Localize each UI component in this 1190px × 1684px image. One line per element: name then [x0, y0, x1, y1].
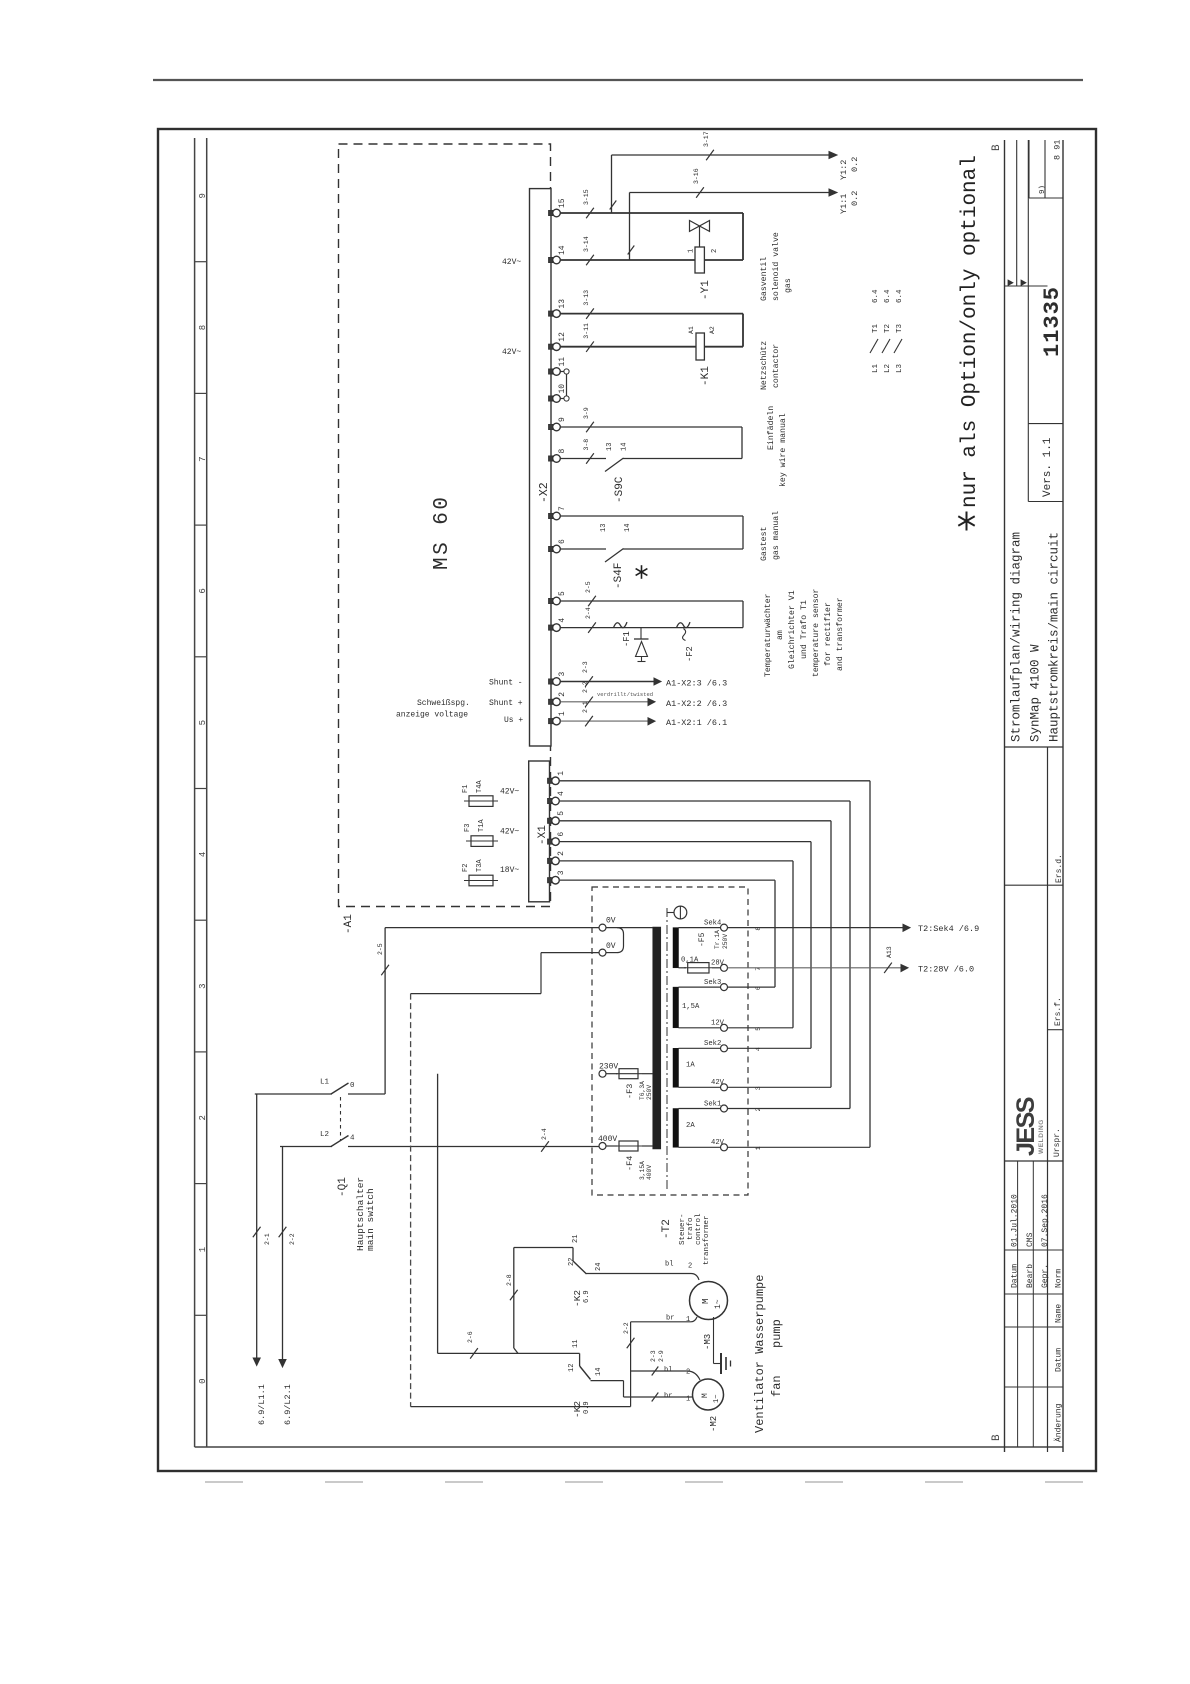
title block left line	[1004, 140, 1006, 1452]
svg-text:2-1: 2-1	[264, 1233, 271, 1245]
svg-text:0.9: 0.9	[583, 1401, 591, 1414]
svg-text:2-4: 2-4	[585, 607, 592, 619]
svg-text:2-3: 2-3	[650, 1350, 657, 1362]
svg-text:Gleichrichter V1: Gleichrichter V1	[787, 590, 797, 669]
wire X2:1 to reference arrow	[560, 720, 648, 722]
svg-text:1A: 1A	[686, 1062, 695, 1070]
contact K2 pump	[572, 1248, 574, 1262]
svg-text:-K2: -K2	[572, 1290, 583, 1307]
svg-text:Sek4: Sek4	[704, 919, 721, 927]
svg-text:-K2: -K2	[572, 1401, 583, 1418]
svg-text:0V: 0V	[606, 917, 616, 926]
svg-text:42V~: 42V~	[502, 258, 521, 267]
svg-text:-F1: -F1	[622, 631, 632, 647]
svg-text:6.9/L1.1: 6.9/L1.1	[257, 1384, 267, 1425]
svg-text:B: B	[991, 1434, 1003, 1441]
svg-text:L3: L3	[896, 363, 904, 373]
svg-text:01.Jul.2010: 01.Jul.2010	[1011, 1194, 1020, 1247]
wire M3 bottom lead	[631, 1321, 691, 1323]
svg-text:Name: Name	[1055, 1304, 1064, 1323]
svg-text:1: 1	[198, 1247, 208, 1252]
svg-text:2-2: 2-2	[623, 1322, 630, 1334]
svg-text:temperature sensor: temperature sensor	[812, 588, 821, 677]
svg-text:A1: A1	[688, 326, 695, 334]
svg-text:B: B	[991, 144, 1003, 151]
svg-text:Stromlaufplan/wiring diagram: Stromlaufplan/wiring diagram	[1010, 532, 1024, 742]
svg-text:CMS: CMS	[1026, 1232, 1035, 1247]
svg-text:230V: 230V	[599, 1063, 618, 1072]
revision row dividers	[1005, 1326, 1064, 1328]
svg-text:Datum: Datum	[1011, 1264, 1020, 1288]
wire slashes at motor leads	[652, 1367, 659, 1376]
svg-text:-F4: -F4	[625, 1156, 635, 1171]
svg-text:15: 15	[558, 198, 567, 208]
loop join 9/8	[741, 427, 743, 459]
wire X2:3 to reference arrow	[560, 681, 654, 683]
svg-text:14: 14	[621, 443, 629, 451]
svg-text:0V: 0V	[606, 942, 616, 951]
svg-text:-Y1: -Y1	[700, 280, 712, 300]
svg-text:F1: F1	[462, 785, 470, 793]
svg-text:2-6: 2-6	[467, 1331, 474, 1343]
svg-text:2-3: 2-3	[582, 661, 589, 673]
svg-text:0: 0	[198, 1378, 208, 1383]
svg-text:Sek1: Sek1	[704, 1100, 721, 1108]
svg-text:pump: pump	[770, 1319, 784, 1348]
svg-text:Shunt +: Shunt +	[489, 699, 523, 708]
wire X2:5 loop	[560, 600, 743, 602]
terminal X2:4	[549, 625, 556, 630]
svg-text:Datum: Datum	[1055, 1348, 1064, 1372]
svg-text:24: 24	[595, 1263, 603, 1271]
outer border frame	[158, 129, 1096, 1471]
board fuse F1 T4A	[464, 800, 498, 802]
svg-text:-M2: -M2	[709, 1416, 719, 1432]
svg-text:2: 2	[557, 851, 566, 856]
svg-text:gas manual: gas manual	[771, 511, 781, 560]
secondary tap Sek3	[721, 984, 728, 991]
svg-text:11: 11	[572, 1340, 580, 1348]
riser X1:2 to 12V	[792, 861, 794, 1028]
top horizontal rule	[153, 79, 1083, 81]
terminal X1:1	[548, 778, 555, 783]
svg-text:6: 6	[557, 832, 566, 837]
wire X1:5	[560, 820, 831, 822]
svg-text:6.4: 6.4	[896, 289, 904, 303]
wires secondary taps to risers	[728, 986, 776, 988]
svg-text:Vers. 1.1: Vers. 1.1	[1042, 437, 1054, 497]
primary tap 0V top	[599, 924, 606, 931]
svg-text:und Trafo T1: und Trafo T1	[799, 600, 809, 659]
svg-text:3: 3	[198, 983, 208, 988]
svg-text:5: 5	[198, 720, 208, 725]
0V return staircase	[541, 952, 599, 954]
svg-text:4: 4	[198, 852, 208, 857]
svg-text:1~: 1~	[714, 1299, 723, 1309]
wire X2:14	[560, 259, 743, 261]
thermal fuse F2	[677, 622, 691, 628]
svg-text:0: 0	[350, 1082, 355, 1090]
svg-text:3-17: 3-17	[703, 131, 710, 147]
svg-text:1,5A: 1,5A	[682, 1003, 700, 1011]
svg-text:12: 12	[558, 332, 567, 342]
title block col line 2	[1047, 747, 1049, 1452]
svg-text:T3: T3	[896, 323, 904, 333]
svg-text:transformer: transformer	[703, 1215, 711, 1265]
svg-text:6.9/L2.1: 6.9/L2.1	[283, 1384, 293, 1425]
norm row divider	[1005, 1293, 1064, 1295]
svg-text:3-11: 3-11	[583, 323, 590, 339]
title col line upper A	[1016, 140, 1018, 286]
vers cell lines	[1028, 423, 1063, 425]
svg-text:2-2: 2-2	[582, 681, 589, 693]
title block col line 3	[1062, 140, 1064, 1452]
svg-text:9: 9	[558, 417, 567, 422]
svg-text:14: 14	[624, 524, 632, 532]
svg-text:22: 22	[568, 1258, 576, 1266]
svg-text:42V: 42V	[711, 1079, 725, 1087]
svg-text:11335: 11335	[1040, 286, 1065, 357]
svg-text:13: 13	[606, 443, 614, 451]
svg-text:14: 14	[558, 245, 567, 255]
svg-text:Us +: Us +	[504, 716, 523, 725]
terminal X1:3	[548, 878, 555, 883]
terminal X2:13	[549, 311, 556, 316]
terminal X1:4	[548, 798, 555, 803]
svg-text:WELDING: WELDING	[1038, 1119, 1045, 1154]
svg-text:Sek2: Sek2	[704, 1040, 721, 1048]
svg-text:1: 1	[557, 771, 566, 776]
loop join 5/4	[742, 601, 744, 628]
wire number on L2 run	[541, 1141, 549, 1152]
svg-text:07.Sep.2016: 07.Sep.2016	[1041, 1194, 1050, 1247]
svg-text:6.4: 6.4	[872, 289, 880, 303]
wire X2:9 loop	[560, 426, 742, 428]
svg-text:4: 4	[558, 618, 567, 623]
svg-text:Schweißspg.: Schweißspg.	[417, 699, 470, 708]
wire M2 blue lead	[631, 1370, 688, 1372]
main switch Q1 pole L2	[331, 1136, 349, 1147]
svg-text:7: 7	[198, 456, 208, 461]
terminal X1:5	[548, 818, 555, 823]
svg-text:T2:28V /6.0: T2:28V /6.0	[918, 965, 974, 975]
mini box top-right	[1029, 197, 1063, 199]
terminal X1:2	[548, 858, 555, 863]
0V riser to motors	[630, 1322, 632, 1407]
svg-text:A2: A2	[709, 326, 716, 334]
svg-text:gas: gas	[784, 278, 793, 293]
svg-text:key wire manual: key wire manual	[778, 413, 788, 487]
svg-text:2: 2	[688, 1263, 692, 1271]
wire X2:2 to reference arrow	[560, 701, 648, 703]
asterisk option note	[966, 512, 968, 531]
core line	[666, 908, 668, 1191]
board fuse F3 T1A	[466, 840, 498, 842]
svg-text:-Q1: -Q1	[337, 1177, 349, 1197]
solenoid valve Y1 symbol	[690, 221, 700, 232]
svg-text:3-15: 3-15	[583, 189, 590, 205]
svg-text:T1: T1	[872, 323, 880, 333]
title col line upper B	[1027, 140, 1029, 424]
svg-text:0.2: 0.2	[850, 157, 860, 172]
pump feed riser	[513, 1248, 515, 1349]
K1 loop right join	[742, 314, 744, 347]
wire K2 to pump M3	[587, 1273, 692, 1275]
fan motor M2	[693, 1379, 724, 1410]
svg-text:T2:Sek4 /6.9: T2:Sek4 /6.9	[918, 924, 979, 934]
terminal X2:7	[549, 513, 556, 518]
svg-text:T1A: T1A	[478, 819, 486, 832]
svg-text:3: 3	[558, 672, 567, 677]
svg-text:0.2: 0.2	[850, 191, 860, 206]
shield earth circle	[674, 906, 687, 919]
svg-text:T6,3A: T6,3A	[639, 1081, 646, 1100]
wire L1 feed	[255, 1093, 332, 1095]
svg-text:4: 4	[350, 1135, 355, 1143]
wire L2.1 down to arrow	[282, 1147, 284, 1360]
frame column strip lines	[194, 138, 196, 1447]
svg-text:2-8: 2-8	[506, 1274, 513, 1286]
svg-text:13: 13	[600, 524, 608, 532]
svg-text:2-2: 2-2	[289, 1233, 296, 1245]
Y1 loop right join	[742, 213, 744, 260]
pump motor M3	[690, 1282, 728, 1320]
svg-text:A1-X2:3 /6.3: A1-X2:3 /6.3	[666, 679, 727, 689]
wire X2:12	[560, 346, 743, 348]
wire L1.1 down to arrow	[256, 1094, 258, 1358]
svg-text:1: 1	[688, 249, 696, 253]
svg-text:am: am	[776, 630, 785, 640]
riser X1:3 to Sek3	[774, 880, 776, 987]
svg-text:anzeige voltage: anzeige voltage	[396, 711, 468, 720]
svg-text:9): 9)	[1039, 185, 1047, 194]
svg-text:A13: A13	[886, 946, 893, 958]
svg-text:F2: F2	[462, 864, 470, 872]
svg-text:1~: 1~	[713, 1395, 721, 1403]
secondary tap 12V	[721, 1024, 728, 1031]
wire X1:1	[560, 780, 870, 782]
svg-text:Gastest: Gastest	[760, 527, 769, 561]
svg-text:2-9: 2-9	[658, 1350, 665, 1362]
optional asterisk at S4F	[641, 565, 643, 579]
secondary tap 42V	[721, 1144, 728, 1151]
svg-text:1: 1	[686, 1316, 690, 1324]
terminal X1:6	[548, 839, 555, 844]
wire L2 feed	[280, 1146, 332, 1148]
terminal strip X1	[529, 761, 550, 902]
frame column ticks	[195, 261, 207, 263]
svg-text:42V: 42V	[711, 1139, 725, 1147]
terminal X2:11 X2:10 jumper stubs	[560, 371, 564, 373]
svg-text:Steuer-: Steuer-	[679, 1213, 687, 1245]
svg-text:JESS: JESS	[1012, 1097, 1040, 1156]
svg-text:-F5: -F5	[698, 932, 707, 947]
fuse F5 on 28V tap	[679, 967, 687, 969]
terminal X2:6	[549, 546, 556, 551]
svg-text:42V~: 42V~	[502, 348, 521, 357]
230V feed down	[437, 1074, 439, 1354]
gas test switch S4F contact	[605, 549, 624, 563]
wire X1:6	[560, 841, 811, 843]
svg-text:fan: fan	[770, 1375, 784, 1397]
svg-text:-F3: -F3	[625, 1084, 635, 1099]
svg-text:Shunt -: Shunt -	[489, 679, 523, 688]
svg-text:2: 2	[711, 249, 719, 253]
svg-text:Temperaturwächter: Temperaturwächter	[763, 593, 773, 677]
svg-text:6: 6	[198, 588, 208, 593]
svg-text:br: br	[666, 1315, 674, 1323]
svg-text:13: 13	[558, 299, 567, 309]
svg-text:A1-X2:1 /6.1: A1-X2:1 /6.1	[666, 718, 727, 728]
svg-text:250V: 250V	[722, 934, 729, 949]
svg-text:3-9: 3-9	[583, 407, 590, 419]
contact K2 fan	[579, 1353, 581, 1366]
svg-text:2: 2	[198, 1115, 208, 1120]
svg-text:bl: bl	[664, 1367, 672, 1375]
svg-text:2-1: 2-1	[582, 701, 589, 713]
svg-text:T2: T2	[884, 324, 892, 333]
svg-text:5: 5	[557, 811, 566, 816]
datum value/label divider	[1005, 1249, 1064, 1251]
title block marks near divider	[1008, 280, 1013, 286]
svg-text:250V: 250V	[646, 1085, 653, 1100]
secondary tap Sek1	[721, 1105, 728, 1112]
svg-text:8: 8	[558, 449, 567, 454]
svg-text:2: 2	[686, 1369, 690, 1377]
svg-text:Gepr.: Gepr.	[1041, 1264, 1050, 1288]
svg-text:Y1:2: Y1:2	[839, 160, 849, 180]
svg-text:18V~: 18V~	[500, 866, 519, 875]
wire K2 to fan M2	[591, 1380, 624, 1382]
svg-text:br: br	[664, 1393, 672, 1401]
svg-text:6.4: 6.4	[884, 289, 892, 303]
svg-text:T4A: T4A	[476, 780, 484, 793]
svg-text:3-14: 3-14	[583, 236, 590, 252]
secondary tap 28V	[721, 964, 728, 971]
svg-text:nur als Option/only optional: nur als Option/only optional	[959, 155, 982, 508]
svg-text:main switch: main switch	[365, 1188, 376, 1251]
svg-text:3-13: 3-13	[583, 290, 590, 306]
wire X1:3	[560, 879, 775, 881]
svg-text:1: 1	[686, 1396, 690, 1404]
riser X1:1 to 42V	[869, 781, 871, 1148]
svg-text:verdrillt/twisted: verdrillt/twisted	[597, 691, 653, 698]
wire X2:15 to Y1 loop	[560, 212, 743, 214]
secondary winding bars	[673, 928, 679, 968]
svg-text:Änderung: Änderung	[1055, 1403, 1064, 1442]
svg-text:Ventilator Wasserpumpe: Ventilator Wasserpumpe	[753, 1275, 767, 1433]
svg-text:3,15A: 3,15A	[639, 1161, 646, 1180]
terminal X2:1	[549, 719, 556, 724]
svg-text:Ers.f.: Ers.f.	[1054, 997, 1063, 1026]
title block divider above 11335	[1005, 285, 1048, 287]
riser X1:4 to Sek1	[849, 801, 851, 1109]
svg-text:T3A: T3A	[476, 859, 484, 872]
svg-text:3: 3	[557, 870, 566, 875]
wire 28V to reference	[728, 967, 902, 969]
key switch S9C contact	[605, 458, 624, 472]
svg-text:10: 10	[558, 384, 567, 394]
svg-text:contactor: contactor	[772, 344, 781, 388]
svg-text:2-4: 2-4	[541, 1128, 548, 1140]
terminal X2:3	[549, 679, 556, 684]
secondary tap Sek4	[721, 924, 728, 931]
wire X2:13 to K1 loop	[560, 313, 743, 315]
frame inner bottom line	[195, 1446, 1063, 1448]
svg-text:2-5: 2-5	[377, 943, 384, 955]
svg-text:400V: 400V	[646, 1165, 653, 1180]
svg-text:11: 11	[558, 357, 567, 367]
Ers.d divider	[1005, 884, 1064, 886]
wire X1:2	[560, 860, 793, 862]
svg-text:42V~: 42V~	[500, 788, 519, 797]
svg-text:12: 12	[568, 1364, 576, 1372]
svg-text:and transformer: and transformer	[835, 597, 845, 671]
svg-text:6: 6	[558, 539, 567, 544]
primary tap 400V with fuse F4	[599, 1143, 606, 1150]
coil Y1	[695, 247, 704, 273]
svg-text:2: 2	[558, 692, 567, 697]
svg-text:L1: L1	[872, 363, 880, 373]
svg-text:A1-X2:2 /6.3: A1-X2:2 /6.3	[666, 699, 727, 709]
riser L1 to 0V	[384, 928, 386, 1094]
Q1 linkage dashed	[340, 1097, 342, 1140]
primary winding bar	[653, 927, 661, 1149]
wire Sek4 to reference	[728, 927, 904, 929]
logo cell divider	[1005, 1160, 1064, 1162]
svg-text:L2: L2	[320, 1131, 329, 1139]
thermal fuse F1	[614, 622, 628, 628]
terminal X2:14	[549, 257, 556, 262]
svg-text:2-5: 2-5	[585, 581, 592, 593]
svg-text:L2: L2	[884, 364, 892, 373]
svg-text:3-8: 3-8	[583, 439, 590, 451]
svg-text:8 91: 8 91	[1053, 140, 1063, 160]
wire X1:4	[560, 800, 850, 802]
secondary tap Sek2	[721, 1045, 728, 1052]
svg-text:12V: 12V	[711, 1020, 725, 1028]
svg-text:control: control	[695, 1213, 703, 1245]
svg-text:-A1: -A1	[343, 914, 355, 934]
board fuse F2 T3A	[464, 880, 498, 882]
terminal X2:8	[549, 456, 556, 461]
svg-text:Bearb: Bearb	[1026, 1264, 1035, 1288]
terminal X2:10	[549, 396, 556, 401]
svg-text:28V: 28V	[711, 960, 725, 968]
datum table column lines	[1017, 1161, 1019, 1447]
wire X2:8 with switch S9C	[560, 458, 606, 460]
svg-text:6.9: 6.9	[583, 1290, 591, 1303]
svg-text:Tr.1A: Tr.1A	[714, 930, 721, 949]
svg-text:9: 9	[198, 193, 208, 198]
wire X2:6 with switch S4F	[560, 548, 606, 550]
main switch Q1 pole L1	[331, 1083, 349, 1094]
primary tap 230V with fuse F3	[599, 1070, 606, 1077]
terminal X2:9	[549, 424, 556, 429]
suppressor diode at F1	[640, 628, 642, 639]
riser X1:6 to Sek2	[810, 842, 812, 1049]
svg-text:Gasventil: Gasventil	[759, 257, 769, 301]
title text cell divider	[1005, 746, 1064, 748]
svg-text:M: M	[701, 1393, 710, 1398]
svg-text:L1: L1	[320, 1079, 330, 1087]
svg-text:Hauptstromkreis/main circuit: Hauptstromkreis/main circuit	[1048, 532, 1062, 742]
svg-text:MS 60: MS 60	[431, 494, 454, 570]
svg-text:2A: 2A	[686, 1122, 695, 1130]
svg-text:4: 4	[557, 791, 566, 796]
terminal X2:12	[549, 344, 556, 349]
svg-text:bl: bl	[665, 1261, 673, 1269]
